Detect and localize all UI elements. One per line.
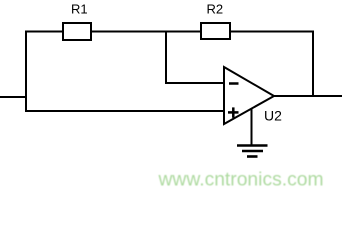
wire: input stub (left edge to node A) [0, 96, 27, 98]
op-amp U2 triangle [224, 67, 274, 124]
wire: feedback vertical (top rail down to output) [312, 31, 314, 98]
wire: left vertical bus (node A up to top rail, down to bottom rail) [25, 31, 27, 113]
resistor R2 [201, 23, 230, 39]
wire: junction drop between R1 and R2 (node B vertical) [165, 31, 167, 85]
svg-text:R1: R1 [71, 2, 88, 17]
wire: output (op-amp tip to right) [273, 95, 342, 97]
op-amp U2 inverting pin mark (-) [229, 82, 239, 85]
svg-text:www.cntronics.com: www.cntronics.com [158, 170, 324, 191]
ground symbol [237, 146, 268, 157]
wire: inverting input feed (node B to op-amp - input) [165, 82, 225, 84]
wire: ground drop from op-amp belly [251, 108, 253, 145]
wire: bottom rail (node A to op-amp + input) [25, 110, 225, 112]
wire: top rail (through R1 and R2 to feedback corner) [25, 31, 314, 33]
op-amp U2 non-inverting pin mark (+) [228, 107, 239, 117]
svg-text:R2: R2 [207, 2, 224, 17]
svg-text:U2: U2 [264, 108, 282, 124]
resistor R1 [63, 23, 91, 40]
